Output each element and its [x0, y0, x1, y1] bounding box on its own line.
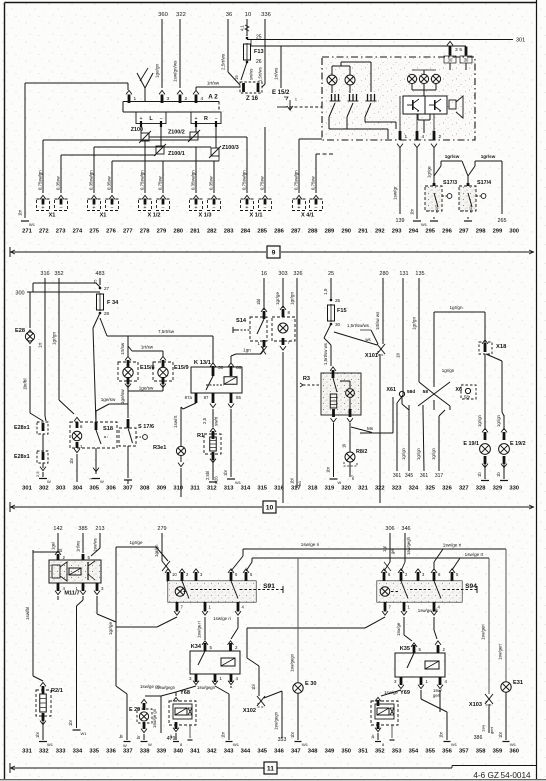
svg-text:E28x1: E28x1 [14, 454, 30, 460]
svg-text:360: 360 [509, 749, 519, 755]
svg-text:286: 286 [274, 229, 284, 235]
svg-text:1,5rt/ws: 1,5rt/ws [258, 67, 263, 82]
svg-text:4,1: 4,1 [240, 25, 245, 31]
svg-text:R8/2: R8/2 [356, 449, 367, 455]
svg-text:483: 483 [95, 271, 104, 277]
svg-text:E15/9: E15/9 [174, 365, 189, 371]
svg-text:−: − [263, 205, 266, 211]
svg-text:w1: w1 [297, 480, 302, 486]
svg-text:357: 357 [459, 749, 469, 755]
svg-text:287: 287 [291, 229, 301, 235]
svg-text:K35: K35 [400, 646, 410, 652]
svg-text:316: 316 [40, 271, 49, 277]
svg-text:Y68: Y68 [180, 690, 190, 696]
svg-text:−: − [314, 205, 317, 211]
svg-text:1gr/ge: 1gr/ge [275, 292, 280, 305]
svg-text:1br: 1br [290, 731, 295, 738]
svg-text:87: 87 [204, 395, 209, 400]
svg-text:sw/ws: sw/ws [249, 69, 254, 80]
svg-text:1bl: 1bl [290, 478, 295, 484]
svg-text:S14: S14 [236, 318, 247, 324]
svg-text:305: 305 [89, 486, 99, 492]
svg-text:334: 334 [73, 749, 83, 755]
svg-text:278: 278 [140, 229, 150, 235]
svg-text:312: 312 [207, 486, 217, 492]
svg-text:279: 279 [157, 526, 166, 532]
svg-text:274: 274 [73, 229, 83, 235]
svg-text:285: 285 [257, 229, 267, 235]
svg-text:1ge/sw: 1ge/sw [139, 386, 154, 391]
svg-text:1bl: 1bl [256, 299, 261, 305]
svg-text:+: + [143, 205, 146, 211]
svg-text:58: 58 [423, 389, 429, 395]
svg-text:1sw/gert: 1sw/gert [498, 643, 503, 660]
svg-text:265: 265 [498, 218, 507, 224]
svg-text:332: 332 [39, 749, 49, 755]
svg-text:1br: 1br [439, 731, 444, 738]
svg-text:S94: S94 [465, 583, 477, 590]
svg-text:139: 139 [396, 218, 405, 224]
svg-text:348: 348 [308, 749, 318, 755]
svg-text:135: 135 [415, 271, 424, 277]
svg-text:E31: E31 [513, 680, 523, 686]
svg-text:F 34: F 34 [107, 300, 119, 306]
svg-text:Z100/1: Z100/1 [168, 151, 185, 157]
svg-text:321: 321 [358, 486, 368, 492]
svg-text:358: 358 [476, 749, 486, 755]
svg-text:131: 131 [399, 271, 408, 277]
svg-text:291: 291 [358, 229, 368, 235]
svg-text:288: 288 [308, 229, 318, 235]
svg-text:280: 280 [173, 229, 183, 235]
svg-text:339: 339 [157, 749, 167, 755]
svg-text:314: 314 [241, 486, 251, 492]
svg-text:Y69: Y69 [400, 690, 410, 696]
svg-text:275: 275 [89, 229, 99, 235]
svg-text:307: 307 [123, 486, 133, 492]
svg-text:313: 313 [224, 486, 234, 492]
svg-text:Ms: Ms [367, 426, 374, 431]
svg-text:X61: X61 [386, 387, 396, 393]
svg-text:352: 352 [375, 749, 385, 755]
svg-text:25: 25 [335, 298, 341, 303]
svg-text:1sw/ge wk: 1sw/ge wk [418, 608, 439, 613]
svg-text:E28x1: E28x1 [14, 425, 30, 431]
svg-text:4-6 GZ 54-0014: 4-6 GZ 54-0014 [473, 771, 531, 780]
svg-text:1br: 1br [35, 731, 40, 738]
svg-text:W1: W1 [302, 742, 309, 747]
svg-text:340: 340 [173, 749, 183, 755]
svg-text:0,75sw/gn: 0,75sw/gn [294, 170, 299, 190]
svg-text:343: 343 [224, 749, 234, 755]
svg-text:1rt/ws: 1rt/ws [274, 67, 279, 80]
svg-text:298: 298 [476, 229, 486, 235]
svg-text:1b: 1b [477, 472, 482, 477]
svg-text:1gr/gn: 1gr/gn [449, 305, 462, 310]
svg-text:323: 323 [392, 486, 402, 492]
svg-text:1gr/gn: 1gr/gn [401, 447, 406, 460]
svg-text:W1: W1 [451, 742, 458, 747]
svg-text:356: 356 [442, 749, 452, 755]
svg-text:1br: 1br [18, 209, 23, 216]
svg-text:E 30: E 30 [305, 681, 317, 687]
svg-text:X 1/3: X 1/3 [198, 213, 211, 219]
svg-text:0,75sw/gn: 0,75sw/gn [140, 170, 145, 190]
svg-text:1sw/gegn: 1sw/gegn [290, 653, 295, 672]
svg-text:297: 297 [459, 229, 469, 235]
svg-text:30: 30 [464, 58, 469, 63]
svg-text:0,75sw: 0,75sw [311, 175, 316, 190]
svg-text:326: 326 [442, 486, 452, 492]
svg-text:S17/4: S17/4 [477, 180, 491, 186]
svg-text:1sw/ws: 1sw/ws [93, 538, 98, 552]
svg-text:E 19/2: E 19/2 [510, 441, 526, 447]
svg-text:S 17/6: S 17/6 [138, 424, 154, 430]
svg-text:W1: W1 [47, 742, 54, 747]
svg-text:S91: S91 [263, 583, 275, 590]
svg-text:1ge/gn: 1ge/gn [155, 64, 160, 78]
svg-text:280: 280 [379, 271, 388, 277]
svg-text:W1: W1 [29, 222, 36, 227]
svg-text:276: 276 [106, 229, 116, 235]
svg-text:1bl: 1bl [251, 684, 256, 690]
svg-text:290: 290 [341, 229, 351, 235]
svg-text:2,5: 2,5 [202, 417, 207, 424]
svg-text:16: 16 [261, 271, 267, 277]
svg-text:336: 336 [106, 749, 116, 755]
svg-text:279: 279 [157, 229, 167, 235]
svg-text:F15: F15 [337, 308, 347, 314]
svg-text:X 1/1: X 1/1 [249, 213, 262, 219]
svg-text:1br: 1br [326, 466, 331, 473]
svg-text:58d: 58d [407, 389, 415, 395]
svg-text:0,35sw: 0,35sw [107, 175, 112, 190]
svg-text:X103: X103 [469, 702, 482, 708]
svg-text:1br: 1br [410, 208, 415, 215]
svg-text:−: − [161, 205, 164, 211]
svg-text:306: 306 [385, 526, 394, 532]
svg-text:317: 317 [435, 473, 444, 479]
svg-text:2,5: 2,5 [35, 471, 40, 477]
svg-text:1gr/gn: 1gr/gn [496, 414, 501, 427]
svg-text:+: + [194, 205, 197, 211]
svg-text:A 2: A 2 [208, 94, 218, 101]
svg-text:5: 5 [459, 47, 462, 53]
svg-text:W: W [123, 743, 127, 748]
svg-text:1gr: 1gr [382, 545, 387, 552]
svg-text:1b: 1b [496, 472, 501, 477]
svg-text:345: 345 [257, 749, 267, 755]
svg-text:K34: K34 [191, 644, 202, 650]
svg-text:X 1/2: X 1/2 [147, 213, 160, 219]
svg-text:−: − [110, 205, 113, 211]
svg-text:w7: w7 [350, 474, 355, 480]
svg-text:330: 330 [509, 486, 519, 492]
svg-text:271: 271 [22, 229, 32, 235]
svg-text:272: 272 [39, 229, 49, 235]
svg-text:309: 309 [157, 486, 167, 492]
svg-text:1sw: 1sw [481, 725, 486, 732]
svg-text:87a: 87a [185, 395, 193, 400]
svg-text:1sw/ge gn: 1sw/ge gn [152, 708, 157, 728]
svg-text:1sw/ge: 1sw/ge [384, 690, 398, 695]
svg-text:X18: X18 [496, 344, 507, 350]
svg-text:1sw/geri: 1sw/geri [481, 624, 486, 640]
svg-text:E 29: E 29 [129, 707, 140, 713]
svg-text:sw/rt: sw/rt [214, 416, 219, 426]
svg-text:w10: w10 [434, 205, 439, 213]
svg-text:1gr/gn: 1gr/gn [416, 447, 421, 460]
svg-text:1li: 1li [396, 353, 401, 358]
svg-text:S17/3: S17/3 [443, 180, 457, 186]
svg-text:345: 345 [405, 473, 414, 479]
svg-text:385: 385 [78, 526, 87, 532]
svg-text:X1: X1 [100, 213, 107, 219]
svg-text:−: − [59, 205, 62, 211]
svg-text:36: 36 [226, 12, 232, 18]
svg-text:308: 308 [140, 486, 150, 492]
svg-text:282: 282 [207, 229, 217, 235]
svg-text:0,35sw/gn: 0,35sw/gn [191, 170, 196, 190]
svg-text:351: 351 [358, 749, 368, 755]
svg-text:352: 352 [54, 271, 63, 277]
svg-text:337: 337 [123, 749, 133, 755]
svg-text:329: 329 [493, 486, 503, 492]
svg-text:361: 361 [420, 473, 429, 479]
svg-text:1sw/gegn: 1sw/gegn [157, 685, 176, 690]
svg-text:333: 333 [56, 749, 66, 755]
svg-text:1,5rt/sw/ws: 1,5rt/sw/ws [347, 323, 370, 328]
svg-text:353: 353 [392, 749, 402, 755]
svg-text:1br: 1br [69, 457, 74, 464]
svg-text:27: 27 [104, 286, 110, 291]
svg-text:1sw/gegh: 1sw/gegh [406, 536, 411, 555]
svg-text:335: 335 [89, 749, 99, 755]
svg-text:gert: gert [489, 726, 494, 734]
svg-text:301: 301 [22, 486, 32, 492]
svg-text:299: 299 [493, 229, 503, 235]
svg-text:E 15/2: E 15/2 [272, 90, 290, 96]
svg-text:1ge/sw: 1ge/sw [120, 389, 125, 404]
svg-text:S18: S18 [103, 426, 113, 432]
svg-text:289: 289 [325, 229, 335, 235]
svg-text:1li: 1li [342, 444, 347, 448]
svg-text:X 4/1: X 4/1 [301, 213, 314, 219]
svg-text:213: 213 [95, 526, 104, 532]
svg-text:1,5: 1,5 [323, 288, 328, 295]
svg-text:1gr/gn: 1gr/gn [442, 368, 455, 373]
svg-text:341: 341 [190, 749, 200, 755]
svg-text:M11/7: M11/7 [64, 591, 79, 597]
svg-text:1gr/sw: 1gr/sw [445, 154, 460, 159]
svg-text:386: 386 [474, 735, 483, 741]
svg-text:2: 2 [439, 134, 442, 140]
svg-text:1gr/gn: 1gr/gn [290, 292, 295, 305]
svg-text:284: 284 [241, 229, 251, 235]
svg-text:1br/bl: 1br/bl [23, 379, 28, 391]
svg-text:336: 336 [261, 12, 271, 18]
svg-text:+: + [41, 205, 44, 211]
svg-text:1b: 1b [370, 734, 375, 739]
svg-text:277: 277 [123, 229, 133, 235]
svg-text:354: 354 [409, 749, 419, 755]
svg-text:1gr/gn: 1gr/gn [154, 544, 159, 557]
svg-text:1sw/rt: 1sw/rt [173, 415, 178, 428]
svg-text:+: + [297, 205, 300, 211]
svg-text:2,5bl: 2,5bl [205, 471, 210, 480]
svg-text:X1: X1 [49, 213, 56, 219]
svg-text:W1: W1 [233, 742, 240, 747]
svg-text:311: 311 [190, 486, 200, 492]
svg-text:347: 347 [291, 749, 301, 755]
svg-text:344: 344 [241, 749, 251, 755]
svg-text:E15/8: E15/8 [140, 365, 155, 371]
svg-text:322: 322 [176, 12, 186, 18]
svg-text:292: 292 [375, 229, 385, 235]
svg-text:58r: 58r [464, 395, 471, 400]
svg-text:W: W [338, 480, 342, 485]
svg-text:Z100/3: Z100/3 [222, 145, 239, 151]
svg-text:315: 315 [257, 486, 267, 492]
svg-text:1br: 1br [68, 719, 73, 726]
svg-text:15: 15 [234, 75, 239, 80]
svg-text:+: + [245, 205, 248, 211]
svg-text:1gr/ge: 1gr/ge [427, 165, 432, 178]
svg-text:30: 30 [218, 365, 224, 371]
svg-text:br: br [136, 735, 141, 739]
svg-text:318: 318 [308, 486, 318, 492]
svg-text:R3: R3 [303, 376, 310, 382]
svg-text:306: 306 [106, 486, 116, 492]
svg-text:4: 4 [422, 134, 425, 140]
svg-text:1sw/ge: 1sw/ge [396, 622, 401, 636]
svg-text:361: 361 [393, 473, 402, 479]
svg-text:346: 346 [401, 526, 410, 532]
svg-text:1br: 1br [498, 731, 503, 738]
svg-text:1,5rt/sw ws: 1,5rt/sw ws [323, 342, 328, 365]
svg-text:w11: w11 [468, 205, 473, 213]
svg-text:1br: 1br [221, 731, 226, 738]
svg-text:346: 346 [274, 749, 284, 755]
svg-text:1gr/gn: 1gr/gn [477, 414, 482, 427]
svg-text:304: 304 [73, 486, 83, 492]
svg-text:28: 28 [104, 311, 110, 316]
svg-text:1sw/ge ri: 1sw/ge ri [443, 543, 461, 548]
svg-text:1sw/gr: 1sw/gr [393, 186, 398, 200]
svg-text:1rt/sw: 1rt/sw [120, 342, 125, 355]
svg-text:355: 355 [425, 749, 435, 755]
svg-text:1rt: 1rt [38, 342, 43, 348]
svg-text:1rt/sw: 1rt/sw [207, 81, 220, 86]
svg-text:320: 320 [341, 486, 351, 492]
svg-text:350: 350 [341, 749, 351, 755]
svg-text:W1: W1 [421, 222, 428, 227]
svg-text:1ge/sw: 1ge/sw [101, 397, 116, 402]
svg-text:W1: W1 [235, 480, 242, 485]
svg-text:1gr/sw: 1gr/sw [481, 154, 496, 159]
svg-text:1sw/bl: 1sw/bl [25, 607, 30, 620]
svg-text:1sw/ge ri: 1sw/ge ri [213, 616, 231, 621]
svg-text:R3e1: R3e1 [153, 445, 166, 451]
svg-text:30: 30 [448, 58, 453, 63]
svg-text:E28: E28 [15, 328, 25, 334]
svg-text:1sw/gegn: 1sw/gegn [274, 711, 279, 730]
svg-text:10: 10 [245, 12, 251, 18]
svg-text:283: 283 [224, 229, 234, 235]
svg-text:1sw/ge ri: 1sw/ge ri [197, 621, 202, 638]
svg-text:1gr/ge: 1gr/ge [129, 540, 142, 545]
svg-text:11: 11 [267, 765, 274, 772]
svg-text:W: W [47, 479, 51, 484]
svg-text:0,35sw/gn: 0,35sw/gn [89, 170, 94, 190]
svg-text:325: 325 [425, 486, 435, 492]
svg-text:10: 10 [266, 504, 274, 511]
svg-text:9: 9 [272, 249, 276, 256]
svg-text:1rt/sw: 1rt/sw [141, 345, 154, 350]
svg-text:X102: X102 [243, 708, 256, 714]
svg-text:Z100/2: Z100/2 [168, 130, 185, 136]
svg-text:F13: F13 [254, 49, 264, 55]
svg-text:W1: W1 [510, 742, 517, 747]
svg-text:R2/1: R2/1 [51, 688, 63, 694]
svg-text:E 19/1: E 19/1 [463, 441, 479, 447]
svg-text:30: 30 [335, 322, 341, 327]
svg-text:0,75sw/gn: 0,75sw/gn [38, 170, 43, 190]
svg-text:273: 273 [56, 229, 66, 235]
svg-text:R1: R1 [197, 433, 204, 439]
svg-text:296: 296 [442, 229, 452, 235]
svg-text:1sw/ge ri: 1sw/ge ri [301, 542, 319, 547]
svg-text:0,75sw/gn: 0,75sw/gn [242, 170, 247, 190]
svg-text:360: 360 [158, 12, 168, 18]
svg-text:359: 359 [493, 749, 503, 755]
svg-text:303: 303 [278, 271, 287, 277]
svg-text:327: 327 [459, 486, 469, 492]
svg-text:−: − [212, 205, 215, 211]
svg-text:0,75sw: 0,75sw [158, 175, 163, 190]
svg-text:281: 281 [190, 229, 200, 235]
svg-text:142: 142 [53, 526, 62, 532]
svg-text:294: 294 [409, 229, 419, 235]
svg-text:1gr/gn: 1gr/gn [412, 317, 417, 330]
svg-text:0,35sw: 0,35sw [56, 175, 61, 190]
svg-text:326: 326 [293, 271, 302, 277]
svg-text:W1: W1 [81, 731, 88, 736]
svg-text:324: 324 [409, 486, 419, 492]
svg-text:1gr/gn: 1gr/gn [431, 447, 436, 460]
svg-text:295: 295 [425, 229, 435, 235]
svg-text:303: 303 [56, 486, 66, 492]
svg-text:1gn: 1gn [243, 348, 251, 353]
svg-text:310: 310 [173, 486, 183, 492]
svg-text:25: 25 [328, 271, 334, 277]
svg-text:10: 10 [172, 572, 177, 577]
svg-text:0,75sw: 0,75sw [260, 175, 265, 190]
svg-text:300: 300 [15, 291, 24, 297]
svg-text:Z 16: Z 16 [246, 96, 259, 102]
svg-text:W: W [100, 479, 104, 484]
svg-text:328: 328 [476, 486, 486, 492]
svg-text:301: 301 [516, 38, 525, 44]
svg-text:W: W [148, 742, 152, 747]
svg-text:1sw/gegn: 1sw/gegn [197, 685, 216, 690]
svg-text:1rt/sw ws: 1rt/sw ws [375, 311, 380, 330]
svg-text:26: 26 [256, 59, 262, 65]
svg-text:3: 3 [455, 47, 458, 53]
svg-text:300: 300 [509, 229, 519, 235]
svg-text:342: 342 [207, 749, 217, 755]
svg-text:K 13/1: K 13/1 [194, 360, 212, 366]
